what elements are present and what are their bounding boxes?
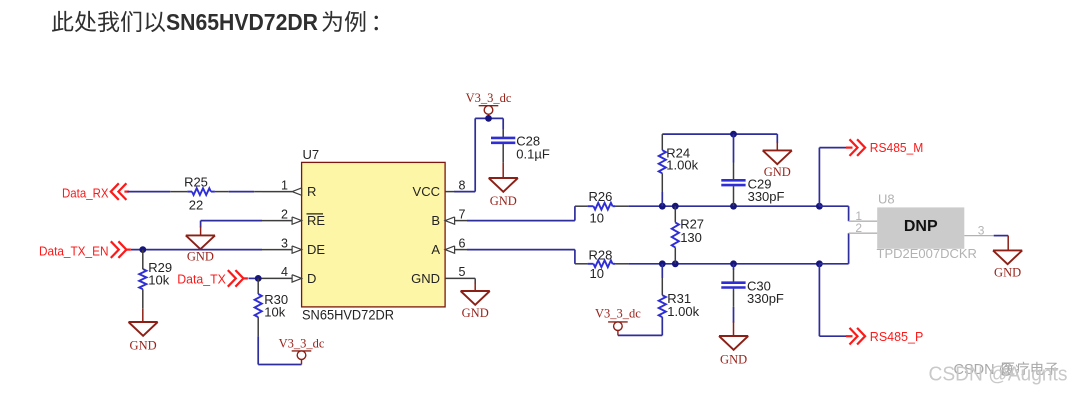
wire A line bbox=[615, 263, 819, 265]
svg-text:5: 5 bbox=[459, 265, 466, 279]
resistor R24 bbox=[659, 134, 699, 206]
junction B / R24 bbox=[659, 203, 666, 210]
svg-text:330pF: 330pF bbox=[748, 189, 785, 204]
resistor R25 bbox=[184, 174, 215, 212]
junction B / R27 bbox=[672, 203, 679, 210]
svg-text:1.00k: 1.00k bbox=[666, 158, 698, 173]
svg-text:22: 22 bbox=[189, 198, 203, 213]
wire Data_RX to R25 bbox=[127, 191, 187, 193]
capacitor C28 bbox=[491, 118, 550, 162]
svg-text:1.00k: 1.00k bbox=[667, 304, 699, 319]
svg-text:7: 7 bbox=[459, 207, 466, 221]
svg-text:0.1µF: 0.1µF bbox=[516, 146, 550, 161]
svg-text:4: 4 bbox=[281, 265, 288, 279]
svg-text:6: 6 bbox=[459, 236, 466, 250]
svg-text:GND: GND bbox=[490, 194, 517, 208]
junction A / R31 bbox=[659, 260, 666, 267]
svg-text:3: 3 bbox=[978, 223, 985, 237]
svg-text:RS485_P: RS485_P bbox=[870, 329, 924, 344]
svg-text:U7: U7 bbox=[303, 147, 320, 162]
wire A to U8 pin 2 bbox=[819, 233, 848, 264]
svg-text:GND: GND bbox=[462, 306, 489, 320]
svg-text:10: 10 bbox=[590, 211, 604, 226]
IC U8 body bbox=[877, 192, 977, 261]
pin 8 (VCC) bbox=[445, 178, 465, 192]
svg-text:V3_3_dc: V3_3_dc bbox=[279, 337, 325, 351]
svg-text:TPD2E007DCKR: TPD2E007DCKR bbox=[877, 246, 977, 261]
svg-text:V3_3_dc: V3_3_dc bbox=[466, 91, 512, 105]
junction VCC / C28 bbox=[485, 115, 492, 122]
resistor R26 bbox=[588, 189, 615, 226]
svg-text:GND: GND bbox=[187, 250, 214, 264]
junction B / RS485_M bbox=[816, 203, 823, 210]
pin 3 of U8 bbox=[964, 223, 993, 237]
port RS485_M bbox=[846, 139, 923, 156]
capacitor C30 bbox=[721, 264, 784, 307]
svg-text:D: D bbox=[307, 271, 316, 286]
svg-text:Data_TX: Data_TX bbox=[177, 271, 226, 286]
junction Data_TX / R30 bbox=[255, 275, 262, 282]
wire Data_TX_EN to pin 3 bbox=[131, 249, 262, 251]
port Data_TX bbox=[177, 270, 248, 287]
svg-text:SN65HVD72DR: SN65HVD72DR bbox=[166, 9, 318, 35]
port Data_RX bbox=[62, 183, 129, 200]
svg-text:A: A bbox=[431, 242, 440, 257]
watermark bbox=[929, 362, 1068, 386]
svg-text:DE: DE bbox=[307, 242, 325, 257]
wire pin 8 to V3_3_dc bbox=[454, 118, 503, 191]
svg-text:RE: RE bbox=[307, 213, 325, 228]
svg-text:GND: GND bbox=[994, 265, 1021, 279]
power V3_3_dc near R31 bbox=[595, 306, 641, 335]
power V3_3_dc top bbox=[466, 91, 512, 118]
svg-text:B: B bbox=[431, 213, 440, 228]
svg-text:2: 2 bbox=[281, 207, 288, 221]
title text bbox=[52, 9, 378, 35]
ground at U8 pin 3 bbox=[993, 250, 1022, 279]
pin 7 (B) bbox=[445, 207, 467, 224]
pin 2 of U8 bbox=[849, 221, 878, 235]
ground below C30 bbox=[719, 307, 748, 367]
svg-text:130: 130 bbox=[680, 230, 702, 245]
svg-text:VCC: VCC bbox=[413, 184, 440, 199]
resistor R30 bbox=[255, 278, 289, 336]
svg-text:R26: R26 bbox=[589, 189, 613, 204]
svg-text:CSDN @Augnts: CSDN @Augnts bbox=[929, 363, 1068, 386]
svg-text:3: 3 bbox=[281, 236, 288, 250]
wire GND rail bbox=[662, 134, 777, 150]
wire R30 to V3_3_dc bbox=[258, 336, 301, 364]
pin 5 (GND) bbox=[445, 265, 475, 279]
junction rail / C29 bbox=[730, 131, 737, 138]
junction Data_TX_EN / R29 bbox=[139, 246, 146, 253]
wire pin 2 to ground bbox=[201, 221, 262, 236]
wire pin 7 to R26 bbox=[467, 206, 588, 220]
svg-text:Data_RX: Data_RX bbox=[62, 185, 109, 200]
IC U7 body bbox=[302, 147, 446, 322]
ground below R29 bbox=[129, 309, 158, 353]
pin 6 (A) bbox=[445, 236, 467, 253]
svg-text:10k: 10k bbox=[148, 272, 169, 287]
svg-text:10: 10 bbox=[590, 266, 604, 281]
junction A / C30 bbox=[730, 260, 737, 267]
svg-text:2: 2 bbox=[855, 221, 862, 235]
svg-text:10k: 10k bbox=[264, 304, 285, 319]
wire RS485_P bbox=[819, 264, 847, 336]
svg-text:Data_TX_EN: Data_TX_EN bbox=[39, 243, 109, 258]
svg-text:RS485_M: RS485_M bbox=[870, 140, 924, 155]
svg-text:GND: GND bbox=[411, 271, 440, 286]
pin 4 (D) bbox=[262, 265, 302, 282]
svg-text:330pF: 330pF bbox=[747, 291, 784, 306]
resistor R31 bbox=[659, 264, 700, 336]
resistor R28 bbox=[588, 247, 615, 281]
power V3_3_dc bottom (Data_TX pull-up) bbox=[279, 337, 325, 365]
resistor R27 bbox=[672, 206, 704, 264]
port Data_TX_EN bbox=[39, 241, 131, 258]
junction A / RS485_P bbox=[816, 260, 823, 267]
svg-text:GND: GND bbox=[130, 339, 157, 353]
svg-text:R28: R28 bbox=[589, 247, 613, 262]
svg-text:SN65HVD72DR: SN65HVD72DR bbox=[302, 308, 394, 323]
ground at rail bbox=[763, 150, 792, 179]
wire pin 5 to ground bbox=[474, 278, 476, 291]
junction B / C29 bbox=[730, 203, 737, 210]
wire B line bbox=[615, 205, 819, 207]
wire R31 to V3_3_dc bbox=[618, 334, 662, 336]
port RS485_P bbox=[846, 328, 923, 345]
ground at pin 5 bbox=[461, 291, 490, 320]
wire B to U8 pin 1 bbox=[819, 206, 848, 221]
svg-text:8: 8 bbox=[459, 178, 466, 192]
resistor R29 bbox=[139, 250, 172, 309]
wire pin 6 to R28 bbox=[467, 250, 588, 264]
svg-text:R: R bbox=[307, 184, 316, 199]
svg-text:1: 1 bbox=[281, 178, 288, 192]
pin 1 (R) bbox=[262, 178, 302, 195]
svg-text:R25: R25 bbox=[184, 174, 208, 189]
svg-text:DNP: DNP bbox=[904, 218, 938, 235]
svg-text:V3_3_dc: V3_3_dc bbox=[595, 306, 641, 320]
svg-text:GND: GND bbox=[720, 353, 747, 367]
ground below C28 bbox=[489, 163, 518, 208]
wire RS485_M bbox=[819, 148, 847, 207]
wire R25 to pin 1 bbox=[215, 191, 262, 193]
pin 3 (DE) bbox=[262, 236, 302, 253]
capacitor C29 bbox=[721, 134, 784, 206]
junction A / R27 bbox=[672, 260, 679, 267]
wire U8 pin 3 to ground bbox=[994, 236, 1009, 251]
svg-text:U8: U8 bbox=[878, 192, 895, 207]
pin 1 of U8 bbox=[849, 209, 878, 223]
ground at pin 2 bbox=[186, 235, 215, 263]
wire Data_TX to pin 4 bbox=[249, 277, 263, 279]
pin 2 (RE) bbox=[262, 207, 302, 224]
